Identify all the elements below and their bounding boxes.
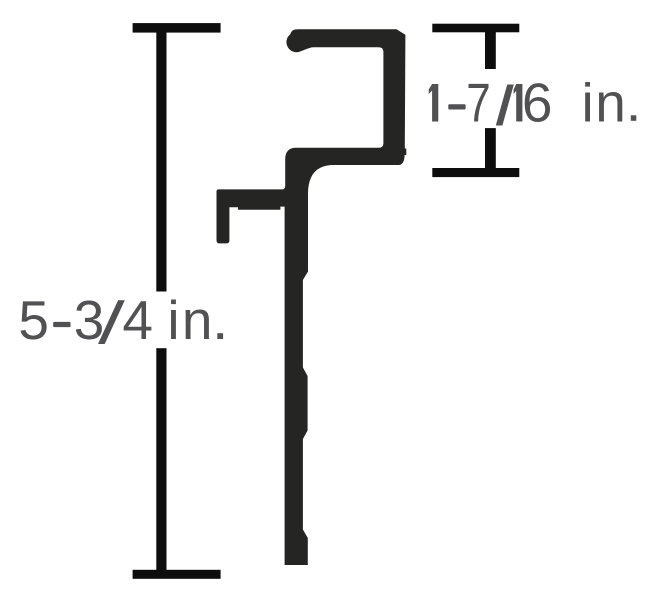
svg-text:n: n — [182, 289, 213, 351]
digit 1 — [429, 84, 439, 122]
period — [631, 115, 637, 121]
left dimension line lower segment — [156, 348, 166, 570]
label 5-3/4 in. — [18, 289, 223, 351]
period — [217, 333, 223, 339]
svg-text:5: 5 — [18, 289, 49, 351]
svg-text:4: 4 — [122, 289, 153, 351]
fraction slash — [98, 300, 125, 344]
left dimension bottom tick — [133, 570, 221, 579]
svg-text:i: i — [582, 72, 594, 134]
svg-text:n: n — [595, 72, 626, 134]
svg-text:6: 6 — [522, 72, 553, 134]
hyphen — [53, 322, 70, 327]
extrusion profile cross-section — [217, 29, 407, 565]
right dimension bottom tick — [432, 168, 519, 177]
hyphen — [448, 104, 465, 109]
fraction slash — [496, 85, 514, 126]
right dimension line upper segment — [485, 31, 496, 69]
svg-text:i: i — [167, 289, 179, 351]
left dimension top tick — [133, 23, 221, 32]
left dimension line upper segment — [156, 31, 166, 292]
svg-text:7: 7 — [466, 72, 490, 134]
digit 1 — [514, 84, 523, 122]
right dimension line lower segment — [485, 128, 496, 168]
right dimension top tick — [432, 24, 519, 33]
label 1-7/16 in. — [429, 72, 637, 134]
